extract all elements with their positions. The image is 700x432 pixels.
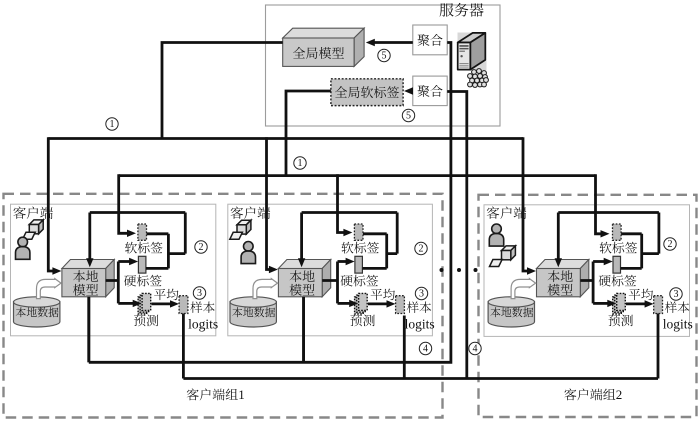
wire: sample logits upload to aggregation (V2) [183, 92, 658, 379]
label 服务器 [440, 3, 484, 17]
client 1 local data cylinder 本地数据 [14, 297, 60, 327]
client 1 soft label rect 软标签 [125, 224, 163, 254]
server box [266, 5, 501, 126]
client 3 label logits [663, 316, 693, 331]
client 1 model output wires [106, 258, 142, 307]
client 1 local training loop wire [86, 213, 185, 269]
client 2 model output wires [322, 258, 358, 307]
client 3 label 客户端 [487, 206, 527, 218]
client 1 model bottom output wire [87, 297, 90, 363]
client 2 box [228, 204, 433, 336]
client 2 local model cube 本地模型 [278, 260, 330, 297]
client 3 model output wires [580, 258, 616, 307]
client 2 step label ② [415, 242, 427, 254]
ellipsis dots between groups [440, 268, 478, 272]
client 2 model bottom output wire [302, 297, 305, 363]
client 3 local data cylinder 本地数据 [488, 297, 534, 327]
client 2 label 平均 [371, 289, 395, 301]
step label ⑤ (soft label aggregation) [402, 109, 414, 121]
svg-text:3: 3 [419, 289, 424, 300]
aggregation box 聚合 (soft labels) [413, 76, 447, 106]
client 1 step label ③ [193, 287, 205, 299]
step label ⑤ (model aggregation) [378, 49, 390, 61]
arrow 聚合 to 全局软标签 (step ⑤) [404, 87, 413, 94]
client 1 hard label rect 硬标签 [124, 256, 162, 286]
client 1 sample logits rect [179, 296, 188, 314]
svg-text:5: 5 [382, 51, 387, 62]
client 2 label 样本 [407, 301, 431, 313]
client 2 local training loop wire [298, 213, 397, 269]
client 2 local data cylinder 本地数据 [230, 297, 276, 327]
client 3 hard label rect 硬标签 [599, 256, 637, 286]
svg-text:logits: logits [188, 316, 218, 331]
aggregation box 聚合 (models) [413, 25, 447, 55]
client 3 label 平均 [629, 289, 653, 301]
client 3 label 样本 [665, 301, 689, 313]
svg-text:2: 2 [419, 244, 424, 255]
client 2 prediction to logits arrow [368, 300, 396, 307]
client 1 label 客户端 [13, 206, 53, 218]
svg-text:4: 4 [473, 344, 478, 355]
client 3 local training loop wire [555, 213, 659, 269]
client 3 prediction to logits arrow [626, 300, 654, 307]
server icon [458, 33, 489, 88]
svg-text:2: 2 [616, 387, 623, 402]
client group 1 dashed box [4, 194, 443, 418]
svg-text:logits: logits [663, 316, 693, 331]
wire: global model broadcast (step ①) [48, 43, 536, 275]
svg-text:1: 1 [110, 119, 115, 130]
client 2 prediction box 预测 [350, 293, 374, 326]
client 2 soft label rect 软标签 [342, 224, 380, 254]
wire: local models upload to aggregation (V1) [89, 43, 451, 363]
client 3 sample logits rect [654, 296, 663, 314]
step label ① (client 1 branch) [106, 118, 118, 130]
svg-text:logits: logits [405, 316, 435, 331]
svg-text:4: 4 [423, 344, 428, 355]
global soft label box 全局软标签 [331, 79, 403, 106]
client 2 label 客户端 [231, 206, 271, 218]
svg-text:3: 3 [674, 289, 679, 300]
svg-text:3: 3 [197, 288, 202, 299]
svg-text:2: 2 [199, 242, 204, 253]
client 1 label 样本 [190, 301, 214, 313]
client 3 step label ③ [670, 288, 682, 300]
client 3 data-to-model curved arrow [511, 279, 535, 299]
client 3 step label ② [664, 238, 676, 250]
client 3 prediction box 预测 [608, 293, 632, 326]
client 3 local model cube 本地模型 [537, 260, 589, 297]
client 2 sample logits rect [396, 296, 405, 314]
step label ④ (group 1) [419, 342, 431, 354]
global model cube 全局模型 [283, 28, 364, 66]
group 2 label 客户端组2 [564, 387, 622, 402]
svg-text:2: 2 [668, 239, 673, 250]
svg-text:1: 1 [238, 387, 245, 402]
client 1 box [11, 204, 216, 336]
client 2 step label ③ [415, 287, 427, 299]
client 2 user icon [230, 220, 256, 263]
client 3 box [484, 205, 690, 337]
client 1 label logits [188, 316, 218, 331]
client 3 user icon [489, 224, 515, 267]
client 1 local model cube 本地模型 [62, 260, 114, 297]
client 1 step label ② [195, 241, 207, 253]
client 3 soft label rect 软标签 [600, 224, 638, 254]
client 1 data-to-model curved arrow [37, 279, 62, 299]
step label ① (soft label branch) [294, 157, 306, 169]
arrow 聚合 to 全局模型 (step ⑤) [366, 39, 413, 46]
client 2 label logits [405, 316, 435, 331]
step label ④ (group 2) [469, 342, 481, 354]
client group 2 dashed box [479, 195, 697, 417]
client 1 prediction box 预测 [134, 293, 158, 326]
svg-text:5: 5 [406, 111, 411, 122]
client 2 data-to-model curved arrow [253, 279, 278, 299]
client 1 user icon [16, 220, 44, 259]
wire: global soft label broadcast (step ①) [119, 91, 610, 238]
client 1 prediction to logits arrow [151, 300, 179, 307]
group 1 label 客户端组1 [187, 387, 245, 402]
client 1 label 平均 [154, 289, 178, 301]
svg-text:1: 1 [298, 158, 303, 169]
client 2 hard label rect 硬标签 [341, 256, 379, 286]
